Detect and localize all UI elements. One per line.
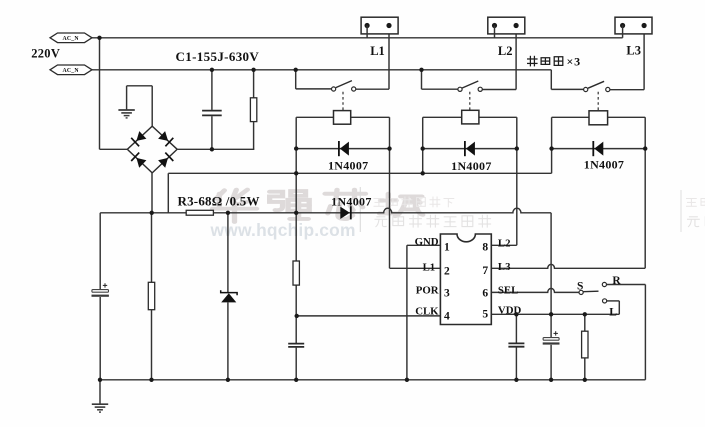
svg-text:8: 8: [482, 242, 488, 254]
svg-text:5: 5: [482, 308, 488, 320]
svg-text:L1: L1: [423, 261, 436, 273]
svg-text:1N4007: 1N4007: [584, 158, 624, 172]
svg-text:L2: L2: [498, 237, 511, 249]
svg-text:1N4007: 1N4007: [451, 159, 491, 173]
svg-text:L: L: [609, 307, 617, 319]
svg-text:C1-155J-630V: C1-155J-630V: [176, 49, 260, 64]
svg-text:L1: L1: [370, 44, 385, 58]
svg-text:CLK: CLK: [415, 306, 439, 318]
svg-text:AC_N: AC_N: [63, 68, 80, 74]
svg-text:1N4007: 1N4007: [331, 195, 371, 209]
svg-text:SEL: SEL: [498, 285, 518, 297]
svg-text:AC_N: AC_N: [63, 36, 80, 42]
svg-text:6: 6: [482, 287, 488, 299]
svg-text:GND: GND: [415, 236, 439, 248]
svg-text:3: 3: [444, 287, 450, 299]
svg-text:220V: 220V: [31, 47, 60, 61]
svg-text:2: 2: [444, 266, 450, 278]
svg-text:POR: POR: [416, 285, 439, 297]
svg-text:R3-68Ω /0.5W: R3-68Ω /0.5W: [178, 194, 260, 209]
svg-text:S: S: [577, 280, 583, 292]
svg-text:4: 4: [444, 310, 450, 322]
svg-text:L3: L3: [626, 44, 641, 58]
svg-text:L2: L2: [498, 44, 513, 58]
svg-text:7: 7: [482, 265, 488, 277]
svg-text:R: R: [612, 275, 621, 287]
svg-text:1N4007: 1N4007: [328, 159, 368, 173]
svg-text:L3: L3: [498, 261, 511, 273]
svg-text:×3: ×3: [567, 54, 581, 68]
svg-text:www.hqchip.com: www.hqchip.com: [210, 220, 356, 240]
svg-text:1: 1: [444, 241, 450, 253]
